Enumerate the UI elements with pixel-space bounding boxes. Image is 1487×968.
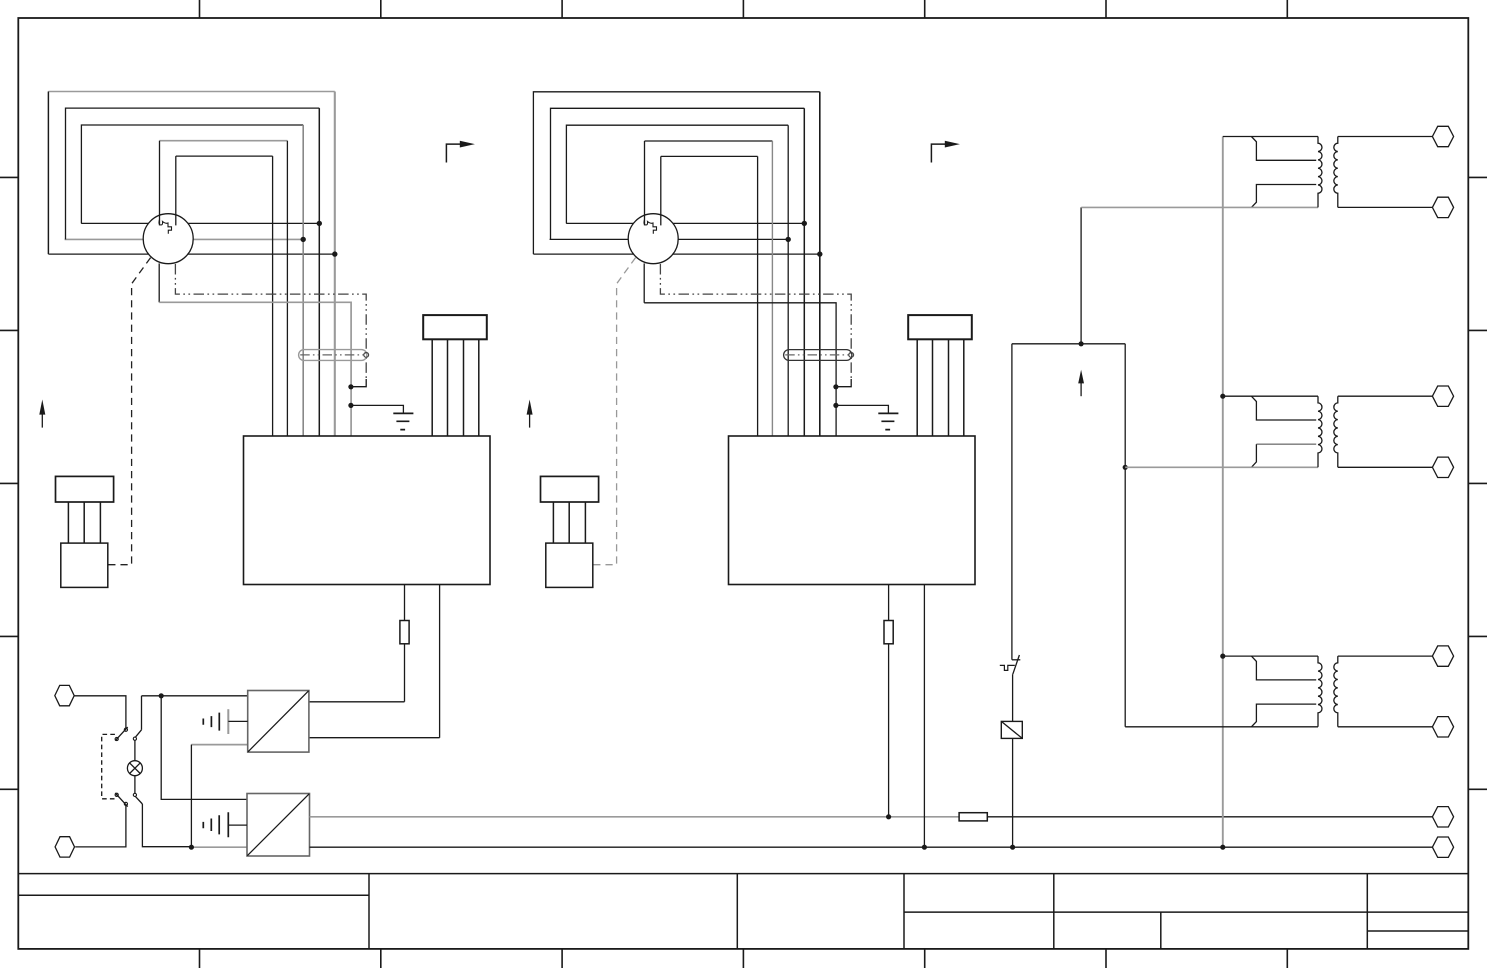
antenna A1 loop turn 4 left lead into coil xyxy=(159,141,161,226)
shield screen dash-dot line xyxy=(175,264,366,379)
indicator lamp H1 xyxy=(127,761,142,776)
T2 tap bracket upper xyxy=(1251,396,1316,420)
hexagon connector T1 bottom xyxy=(1432,197,1453,217)
harness wire to ECU2 xyxy=(644,303,836,436)
antenna A2 loop turn 2 bottom wire xyxy=(550,238,789,240)
potential arrow marker tail xyxy=(1080,383,1082,396)
junction dot loop3 right assembly xyxy=(802,221,807,226)
wire switch S2b down to junction xyxy=(142,804,191,847)
key module 2 body box xyxy=(546,543,593,587)
branch wire down to converter2 feed xyxy=(161,696,247,800)
ground wire xyxy=(351,405,404,413)
T1 secondary top lead xyxy=(1338,136,1433,138)
shield termination corner right xyxy=(837,379,852,387)
coil hook symbol inside circle W2 xyxy=(644,220,657,234)
junction dot ground branch xyxy=(348,403,353,408)
T3 primary bottom lead xyxy=(1125,726,1318,728)
bus wire upper continuation to hexagon xyxy=(987,816,1432,818)
key module connector rect xyxy=(56,476,114,502)
relay coil K1 box xyxy=(1001,721,1022,738)
transponder coil circle W2 xyxy=(628,214,678,264)
T2 secondary top lead xyxy=(1338,395,1433,397)
switch S2b blade xyxy=(136,797,143,804)
T3 secondary winding xyxy=(1334,656,1338,727)
cable loom marker centre line xyxy=(300,354,366,356)
junction dot ground branch right xyxy=(833,403,838,408)
converter1 cell-bar symbol xyxy=(203,713,219,731)
antenna A2 loop turn 5 left lead into coil xyxy=(660,156,662,225)
converter2 diagonal xyxy=(247,794,309,856)
sheet reference arrow right xyxy=(931,144,946,162)
junction dot T2 return xyxy=(1123,465,1128,470)
switch S1a contact circle lower xyxy=(115,737,118,740)
ground wire right xyxy=(836,405,889,413)
T1 secondary bottom lead xyxy=(1338,206,1433,208)
antenna A2 loop turn 1 left+top xyxy=(533,92,819,254)
NC contact seat xyxy=(1012,659,1020,661)
sheet reference arrow left xyxy=(446,144,461,162)
shield node small circle xyxy=(364,353,369,358)
transponder coil circle W1 xyxy=(143,214,193,264)
junction dot feed branch xyxy=(159,693,164,698)
supply distribution wire horizontal xyxy=(1012,343,1125,345)
switch S1b blade xyxy=(115,793,128,807)
converter1 return wire gray xyxy=(191,744,247,746)
wire top node to NC contact xyxy=(1011,344,1013,660)
junction dot shield to harness right xyxy=(833,384,838,389)
antenna A1 loop turn 2 right wire to ECU xyxy=(318,108,320,436)
resistor R1 xyxy=(400,621,409,644)
antenna A2 loop turn 3 left+top xyxy=(566,125,788,223)
up arrow marker second xyxy=(529,414,531,428)
antenna A2 loop turn 5 right wire to ECU xyxy=(757,156,759,436)
zone tick marks bottom edge xyxy=(200,949,1288,968)
T3 tap bracket lower xyxy=(1251,704,1316,727)
title block vertical divider x=1054 xyxy=(1053,874,1055,949)
antenna A1 loop turn 4 top xyxy=(160,140,288,142)
T2 secondary bottom lead xyxy=(1338,466,1433,468)
antenna A2 loop turn 5 top xyxy=(661,155,758,157)
converter1 box xyxy=(248,691,309,753)
converter2 cell-bar symbol xyxy=(203,812,228,837)
title block horizontal line right half y=912 xyxy=(904,911,1468,913)
junction dot feed T2 xyxy=(1220,394,1225,399)
hexagon connector T2 bottom xyxy=(1432,457,1453,477)
earth ground symbol xyxy=(393,413,413,429)
ECU2 connector pin wires xyxy=(917,339,964,436)
antenna A1 loop turn 3 left+top xyxy=(81,125,303,223)
antenna A2 loop turn 2 right wire to ECU xyxy=(803,108,805,436)
junction dot pin2 on lower bus xyxy=(922,845,927,850)
key module 2 pin wires xyxy=(553,502,585,543)
coil hook symbol inside circle xyxy=(159,220,172,234)
key module pin wires xyxy=(68,502,100,543)
title block vertical divider x=737 xyxy=(736,874,738,949)
wire from coil bottom to harness xyxy=(158,263,160,302)
sheet reference arrow head left xyxy=(460,141,475,148)
hexagon connector X2 xyxy=(55,837,74,857)
title block vertical divider x=1367 xyxy=(1366,874,1368,949)
antenna A2 loop turn 1 right wire to ECU xyxy=(819,92,821,436)
junction dot loop2 right assembly xyxy=(786,237,791,242)
ECU1 output pin wire 2 xyxy=(439,585,441,738)
T2 primary winding xyxy=(1318,396,1322,467)
junction dot bottom node xyxy=(189,845,194,850)
antenna A2 loop turn 3 bottom wire xyxy=(566,222,804,224)
antenna A1 loop turn 1 left+top xyxy=(48,92,334,255)
harness wire gray to ECU xyxy=(159,302,351,436)
lamp H1 cross xyxy=(130,763,141,774)
T1 tap bracket upper xyxy=(1251,137,1316,161)
converter2 box xyxy=(247,794,310,857)
sheet reference arrow head right xyxy=(945,141,960,148)
shield termination corner xyxy=(352,379,367,387)
junction dot supply node xyxy=(1079,341,1084,346)
T3 primary top lead xyxy=(1223,655,1318,657)
bus wire lower from converter2 to hexagon xyxy=(310,846,1433,848)
wire converter1 to ECU1 pin1 xyxy=(309,701,405,703)
key link dashed line from circle to transponder key module xyxy=(108,258,150,565)
junction dot loop2 to vertical xyxy=(301,237,306,242)
title block outline top line xyxy=(18,873,1468,875)
junction dot feed T3 xyxy=(1220,654,1225,659)
ECU1 output pin wire 1 xyxy=(404,585,406,702)
antenna A1 loop turn 1 bottom wire xyxy=(48,253,334,255)
ECU2 output pin wire 2 to bus xyxy=(923,585,925,848)
antenna A1 loop turn 1 left side black xyxy=(47,92,49,255)
wire converter1 to ECU1 pin2 xyxy=(309,737,440,739)
antenna A1 loop turn 5 left lead into coil xyxy=(175,156,177,225)
cable loom marker pill xyxy=(299,350,367,361)
hexagon connector upper bus xyxy=(1432,807,1453,827)
T1 tap bracket lower xyxy=(1251,185,1316,208)
bus wire upper gray from converter2 xyxy=(310,816,960,818)
antenna A1 loop turn 1 right wire to ECU xyxy=(334,92,336,437)
T2 secondary winding xyxy=(1334,396,1338,467)
T2 primary bottom lead gray xyxy=(1125,466,1318,468)
switch S2b contact circle xyxy=(133,793,136,796)
ECU2 output pin wire 1 to bus xyxy=(888,585,890,817)
antenna A2 loop turn 4 left lead into coil xyxy=(644,141,646,225)
antenna A1 loop turn 4 right wire to ECU xyxy=(286,141,288,436)
ECU1 connector pin wires xyxy=(432,339,479,436)
title block horizontal line left cell y=895 xyxy=(18,894,369,896)
wire NC contact to relay coil K1 xyxy=(1012,674,1014,721)
zone tick marks left edge xyxy=(0,177,18,789)
antenna A1 loop turn 5 top xyxy=(176,155,273,157)
T1 primary bottom lead gray xyxy=(1081,206,1318,208)
wire relay coil to lower bus xyxy=(1012,738,1014,847)
feed rail gray vertical xyxy=(1222,137,1224,848)
wire contact to lamp xyxy=(134,741,136,761)
converter1 diagonal xyxy=(248,691,309,752)
junction dot loop1 to vertical xyxy=(332,251,337,256)
switch S1a contact circle upper xyxy=(124,728,127,731)
antenna A2 loop turn 4 top xyxy=(645,140,773,142)
antenna A2 loop turn 2 left+top xyxy=(551,108,805,239)
wire switch S1b to hexagon X2 xyxy=(75,806,126,847)
junction dot pin1 on upper bus xyxy=(886,814,891,819)
ECU2 connector block xyxy=(908,315,972,339)
hexagon connector T3 top xyxy=(1432,646,1453,666)
hexagon connector T2 top xyxy=(1432,386,1453,406)
up arrow head left xyxy=(39,400,45,415)
hexagon connector lower bus xyxy=(1432,837,1453,857)
wire down to switch S2a xyxy=(141,696,143,730)
relay coil K1 diagonal xyxy=(1001,721,1022,738)
T1 secondary winding xyxy=(1334,137,1338,208)
converter2 cell lead xyxy=(228,824,247,826)
key module body box xyxy=(61,543,108,587)
cable loom marker centre line right xyxy=(785,354,851,356)
wire converter1 return down to bottom node xyxy=(190,745,192,848)
antenna A1 loop turn 3 bottom wire xyxy=(81,222,319,224)
hexagon connector T3 bottom xyxy=(1432,717,1453,737)
antenna A2 loop turn 1 bottom wire xyxy=(533,253,819,255)
title block vertical divider x=904 xyxy=(903,874,905,949)
earth ground symbol right xyxy=(878,413,898,429)
T3 tap bracket upper xyxy=(1251,656,1316,680)
up arrow marker left xyxy=(41,414,43,428)
title block vertical divider x=369 xyxy=(368,874,370,949)
bottom node stub to converter2 gray xyxy=(191,846,247,848)
up arrow head second xyxy=(527,400,533,415)
antenna A1 loop turn 2 left+top xyxy=(66,108,320,239)
shield node small circle right xyxy=(849,353,854,358)
antenna A2 loop turn 3 right wire to ECU xyxy=(787,125,789,436)
T2 tap bracket lower xyxy=(1256,443,1316,445)
antenna A1 loop turn 5 right wire to ECU xyxy=(272,156,274,436)
resistor R2 xyxy=(884,621,893,644)
switch S2a blade xyxy=(136,730,142,737)
converter1 cell lead xyxy=(228,720,247,722)
wire lamp to switch S2b xyxy=(134,776,136,793)
T1 primary top lead xyxy=(1223,136,1318,138)
switch S1b contact circle upper xyxy=(115,793,118,796)
T3 primary winding xyxy=(1318,656,1322,727)
T1 primary winding xyxy=(1318,137,1322,208)
title block partial vertical divider x=1161 xyxy=(1160,912,1162,949)
antenna A2 loop turn 4 right wire to ECU xyxy=(771,141,773,436)
antenna A1 loop turn 2 bottom wire xyxy=(65,238,304,240)
junction dot loop1 right assembly xyxy=(817,251,822,256)
ECU1 connector block xyxy=(423,315,487,339)
ECU2 control unit box xyxy=(729,436,976,585)
hexagon connector T1 top xyxy=(1432,126,1453,146)
T2 tap bracket lower corner xyxy=(1251,444,1256,467)
wire top feed to converter1 xyxy=(142,695,248,697)
hexagon connector X1 xyxy=(55,685,74,705)
wire supply node up to transformer T1 return xyxy=(1080,207,1082,343)
potential arrow marker head xyxy=(1078,370,1084,384)
converter1 cell-bar tall bar xyxy=(227,709,229,734)
NC contact blade xyxy=(1013,655,1020,674)
key module 2 connector rect xyxy=(541,476,599,502)
zone tick marks right edge xyxy=(1468,177,1487,789)
wire hexagon X1 to switch S1a xyxy=(74,696,126,728)
title block horizontal line rightmost cell y=931 xyxy=(1367,930,1468,932)
switch S1b contact circle lower xyxy=(124,802,127,805)
resistor R3 horizontal xyxy=(959,813,987,821)
NC contact plunger mark xyxy=(1000,665,1015,670)
switch S1a blade xyxy=(115,727,128,741)
T2 primary top lead xyxy=(1223,395,1318,397)
ECU1 control unit box xyxy=(244,436,491,585)
zone tick marks top edge xyxy=(200,0,1288,18)
T3 secondary top lead xyxy=(1338,655,1433,657)
junction dot relay on lower bus xyxy=(1010,845,1015,850)
switch gang linkage dashed xyxy=(102,734,115,798)
wire from coil W2 bottom to harness xyxy=(643,263,645,302)
key link dashed line right module xyxy=(593,258,635,565)
junction dot feed on lower bus xyxy=(1220,845,1225,850)
cable loom marker pill right xyxy=(784,350,852,361)
switch S2a contact circle xyxy=(133,737,136,740)
T3 secondary bottom lead xyxy=(1338,726,1433,728)
shield screen dash-dot line right xyxy=(660,264,851,379)
junction dot loop3 to vertical xyxy=(317,221,322,226)
antenna A1 loop turn 3 right wire to ECU xyxy=(302,125,304,436)
junction dot shield to harness xyxy=(348,384,353,389)
wire supply to transformer T2/T3 returns xyxy=(1124,344,1126,727)
